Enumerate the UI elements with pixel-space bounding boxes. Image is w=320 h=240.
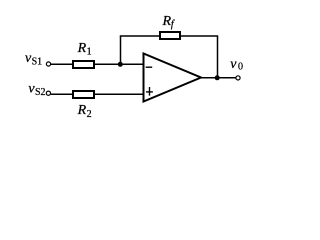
label Rf [162, 14, 175, 30]
svg-text:v: v [230, 57, 237, 72]
wire right vertical down to output node [217, 36, 219, 78]
svg-text:1: 1 [87, 46, 92, 57]
op-amp minus sign [146, 66, 153, 68]
wire junction up [120, 36, 122, 64]
wire op-amp output [201, 77, 236, 79]
wire vS2 to R2 [51, 93, 73, 95]
op-amp U1 [144, 54, 202, 102]
node A junction (feedback tap) [118, 62, 123, 67]
svg-text:2: 2 [87, 109, 92, 120]
label vS2 [28, 82, 45, 99]
wire Rf to right vertical [181, 35, 218, 37]
terminal vS1 [46, 62, 50, 66]
resistor Rf [160, 32, 180, 39]
resistor R1 [73, 61, 94, 68]
svg-text:R: R [77, 103, 87, 118]
wire R1 to inverting input [95, 63, 144, 65]
svg-text:S2: S2 [35, 87, 46, 98]
label vS1 [25, 51, 42, 67]
wire vS1 to R1 [51, 63, 73, 65]
svg-text:R: R [77, 41, 87, 56]
node output junction [215, 75, 220, 80]
label R1 [77, 41, 92, 58]
svg-text:0: 0 [238, 62, 243, 73]
terminal v0 [236, 76, 240, 80]
label R2 [77, 103, 92, 120]
resistor R2 [73, 91, 94, 98]
op-amp plus sign [146, 87, 153, 96]
label v0 [230, 57, 243, 73]
terminal vS2 [46, 91, 50, 95]
svg-text:S1: S1 [32, 56, 43, 67]
wire top left to Rf [120, 35, 160, 37]
wire R2 to non-inverting input [95, 93, 144, 95]
